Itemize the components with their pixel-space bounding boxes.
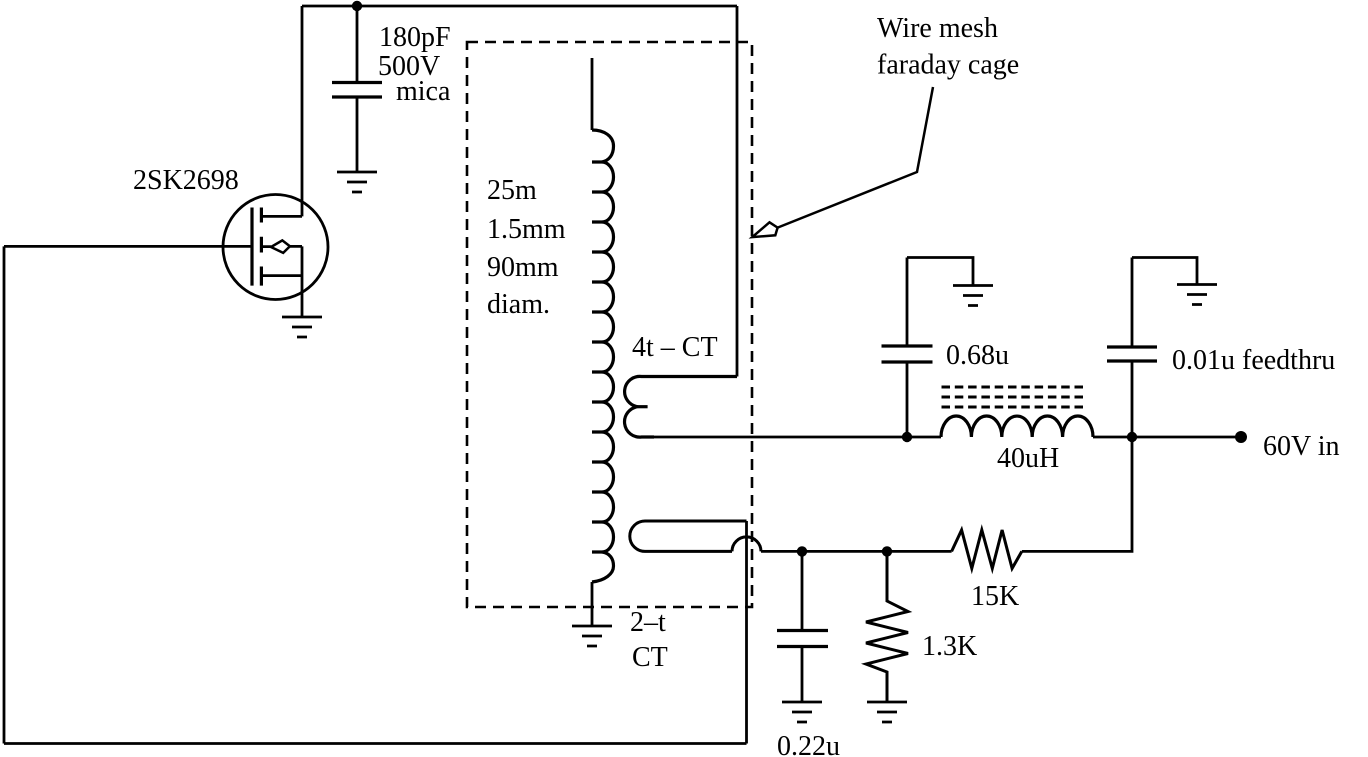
transistor Q1 body arrow — [271, 240, 290, 253]
ground (R2) — [867, 702, 907, 722]
wire source down — [301, 246, 304, 317]
dashed core rows above L4 — [942, 387, 1088, 407]
svg-text:180pF: 180pF — [379, 22, 451, 53]
capacitor C3 0.68u plates — [882, 346, 933, 362]
svg-text:1.5mm: 1.5mm — [487, 214, 566, 245]
svg-text:0.22u: 0.22u — [777, 731, 840, 757]
inductor L2 tap stub — [638, 405, 648, 408]
ground (C4) — [1177, 285, 1217, 305]
svg-text:15K: 15K — [971, 581, 1019, 612]
wire 60V input stub — [1132, 436, 1241, 439]
ground (C3) — [953, 286, 993, 306]
svg-text:60V in: 60V in — [1263, 431, 1340, 462]
svg-text:Wire mesh: Wire mesh — [877, 13, 998, 44]
transistor Q1 channel bar (dashed) — [260, 208, 263, 286]
svg-text:0.01u feedthru: 0.01u feedthru — [1172, 345, 1335, 376]
resistor R2 1.3K — [866, 551, 908, 701]
svg-text:90mm: 90mm — [487, 252, 559, 283]
inductor L4 40uH — [941, 416, 1093, 437]
svg-text:2–t: 2–t — [630, 607, 666, 638]
label C1 value 180pF 500V mica — [378, 22, 451, 107]
resistor R1 15K — [952, 530, 1022, 568]
svg-text:4t – CT: 4t – CT — [632, 332, 718, 363]
transistor Q1 source tap — [261, 274, 302, 277]
svg-text:diam.: diam. — [487, 289, 550, 320]
svg-text:40uH: 40uH — [997, 443, 1059, 474]
wire tap riser from top rail — [736, 6, 739, 377]
transistor Q1 circle — [223, 195, 328, 300]
node A top junction — [352, 1, 362, 11]
wire C4 top to ground — [1132, 258, 1197, 285]
node B 0.22u junction — [797, 546, 807, 556]
capacitor C4 0.01u plates — [1107, 347, 1157, 361]
node E L4 output junction — [1127, 432, 1137, 442]
wire bottom rail — [4, 742, 747, 745]
capacitor C1 180pF leads — [356, 6, 359, 172]
node D input node — [902, 432, 912, 442]
inductor L3 2-turn link winding hairpin — [630, 521, 747, 551]
svg-text:faraday cage: faraday cage — [877, 50, 1019, 81]
capacitor C4 0.01u leads — [1131, 258, 1134, 438]
wire coil bottom to ground — [591, 582, 594, 626]
svg-text:CT: CT — [632, 642, 668, 673]
inductor L1 secondary coil spine top — [591, 58, 594, 130]
inductor L1 secondary coil turns — [592, 130, 614, 582]
faraday cage dashed box — [467, 42, 752, 607]
transistor Q1 body tap — [261, 245, 302, 248]
wire top rail drain to tap — [302, 5, 737, 8]
svg-text:0.68u: 0.68u — [946, 340, 1009, 371]
wire R1 to node D — [1022, 437, 1132, 551]
ground (below C1) — [337, 172, 377, 192]
node F 60V terminal — [1235, 431, 1247, 443]
capacitor C3 0.68u leads — [906, 258, 909, 438]
wire bias rail — [761, 550, 952, 553]
inductor L1 turn stubs — [592, 162, 602, 552]
svg-text:mica: mica — [396, 76, 451, 107]
svg-text:1.3K: 1.3K — [922, 631, 977, 662]
inductor L2 4-turn tap winding — [625, 376, 737, 437]
label 2-t CT — [630, 607, 668, 673]
svg-text:2SK2698: 2SK2698 — [133, 165, 239, 196]
capacitor C2 0.22u leads — [801, 551, 804, 702]
node C 1.3K junction — [882, 546, 892, 556]
wire gate lead — [4, 245, 252, 248]
transistor Q1 drain tap — [261, 215, 302, 218]
ground (coil bottom) — [572, 626, 612, 646]
capacitor C1 180pF plates — [332, 83, 382, 98]
transistor Q1 gate bar — [250, 208, 253, 286]
wire C3 top to ground — [907, 258, 973, 286]
ground (source) — [282, 317, 322, 337]
label Wire mesh faraday cage — [877, 13, 1019, 81]
wire tap output to input node — [654, 436, 1132, 439]
capacitor C2 0.22u plates — [777, 631, 828, 647]
ground (C2) — [782, 702, 822, 722]
wire drain vertical — [301, 6, 304, 216]
wire right riser to 2t link — [745, 521, 748, 744]
callout arrowhead — [752, 222, 777, 237]
wire left vertical — [3, 246, 6, 743]
svg-text:25m: 25m — [487, 175, 537, 206]
label coil specs 25m 1.5mm 90mm diam. — [487, 175, 566, 320]
callout pointer line — [778, 87, 933, 228]
wire hop over riser — [732, 537, 761, 552]
